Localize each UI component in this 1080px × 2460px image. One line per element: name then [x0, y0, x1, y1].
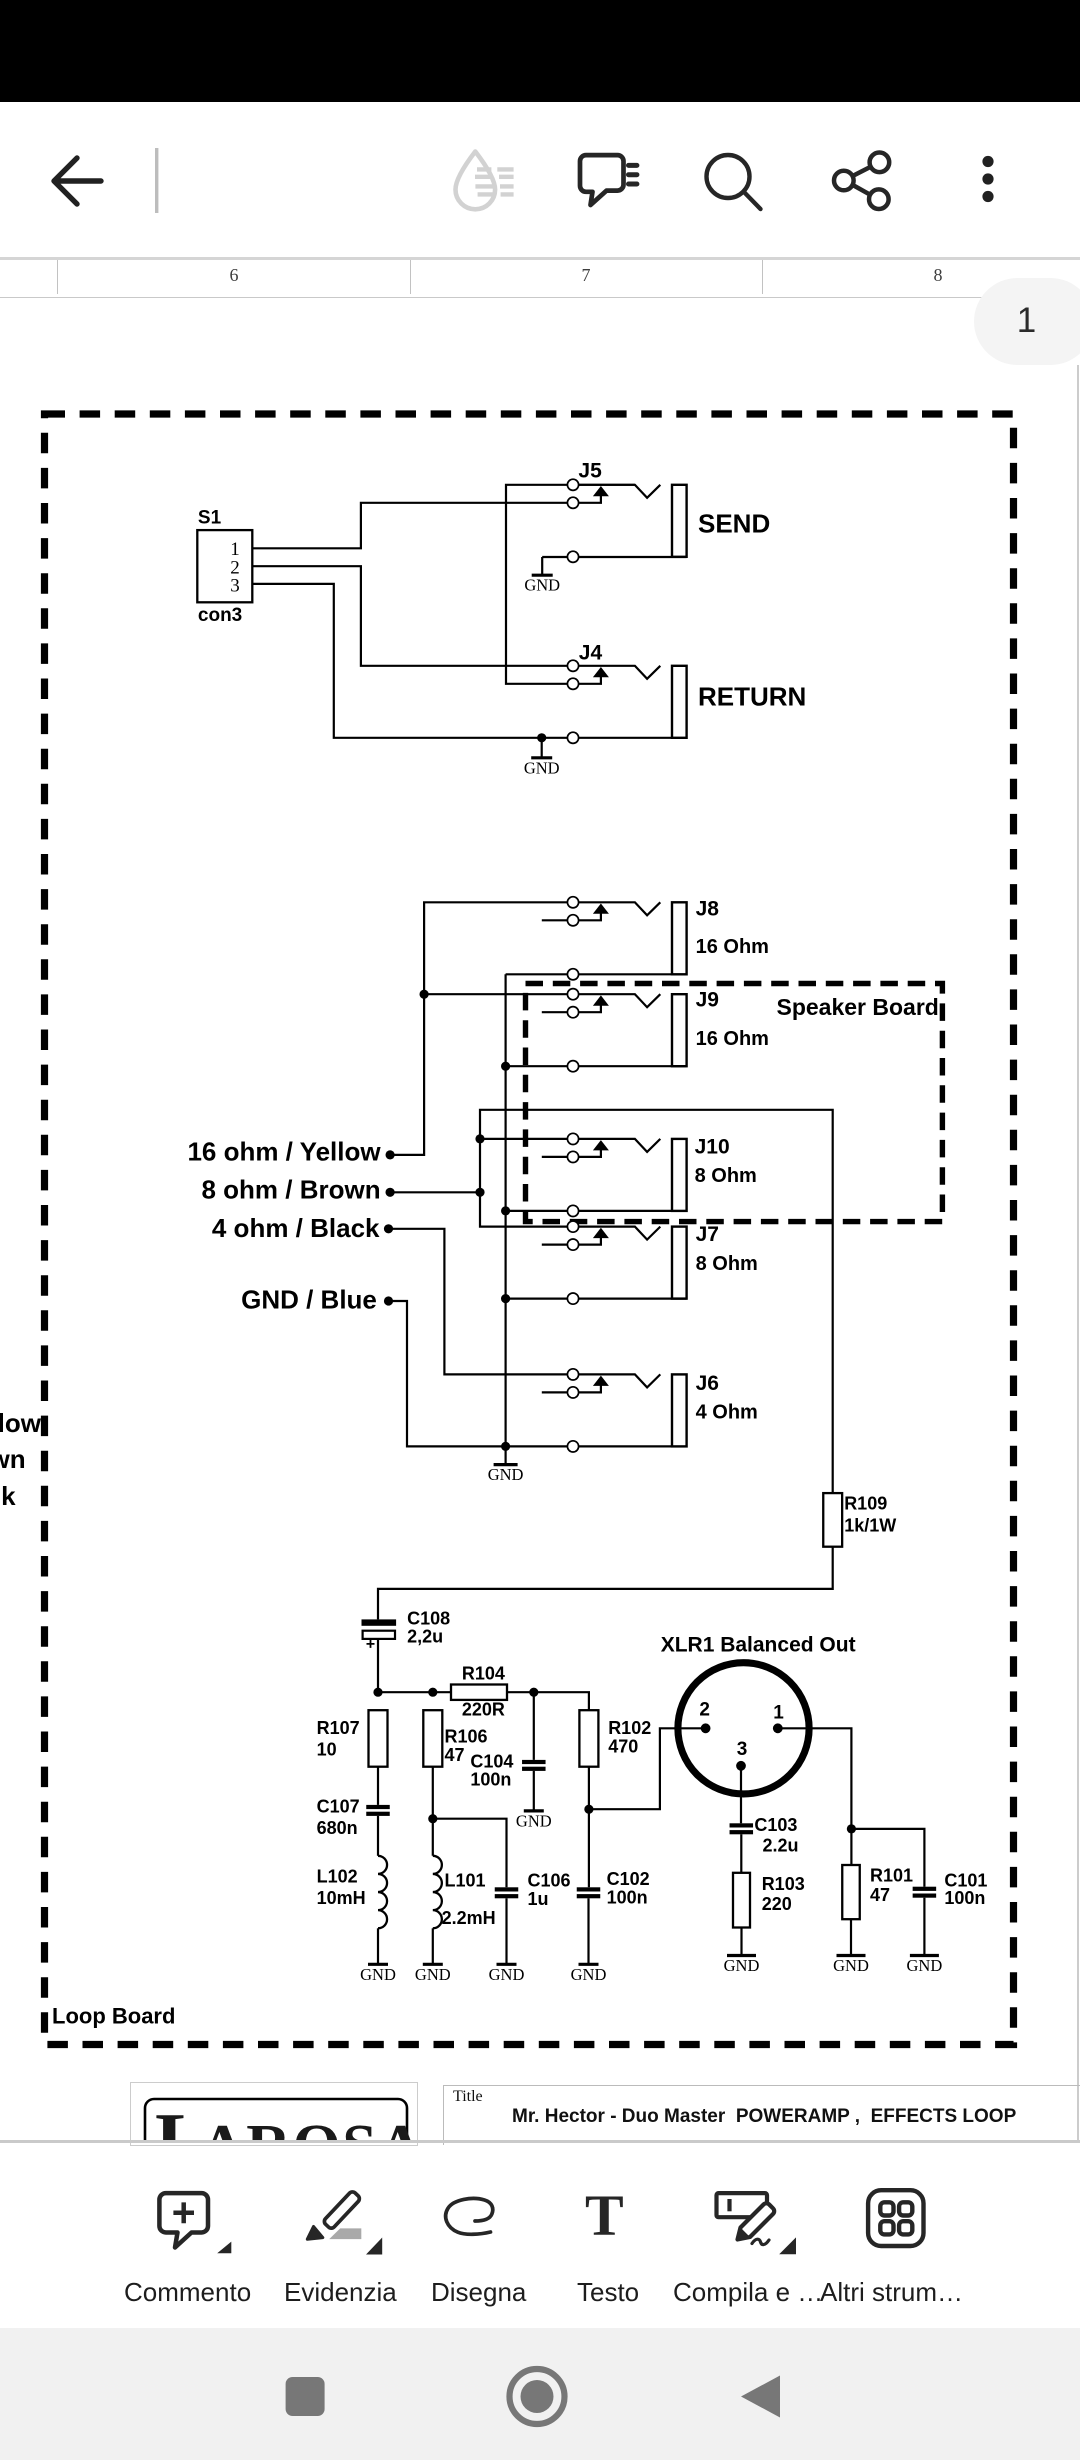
svg-text:GND: GND: [516, 1811, 552, 1830]
ground C101: [907, 1940, 943, 1975]
svg-text:Speaker Board: Speaker Board: [777, 994, 939, 1020]
jack J6: [567, 1369, 686, 1452]
svg-text:L101: L101: [445, 1870, 486, 1890]
svg-text:R109: R109: [844, 1494, 887, 1514]
XLR pin 3: [736, 1761, 746, 1771]
svg-text:con3: con3: [198, 605, 242, 626]
svg-text:47: 47: [870, 1885, 890, 1905]
ground C104: [516, 1795, 552, 1830]
svg-text:J6: J6: [696, 1372, 719, 1395]
junction node R107: [373, 1688, 382, 1697]
junction 4ohm label: [384, 1224, 393, 1233]
wire J9 ring stub: [542, 1011, 573, 1013]
svg-text:8 Ohm: 8 Ohm: [695, 1165, 757, 1187]
svg-text:GND: GND: [724, 1956, 760, 1975]
wire C101 to gnd: [923, 1898, 925, 1940]
jack J5: [567, 479, 686, 562]
altri strumenti icon: [868, 2190, 923, 2246]
junction gnd bus J7: [501, 1294, 510, 1303]
wire J5 sleeve: [542, 556, 686, 558]
evidenzia icon: [323, 2190, 361, 2230]
svg-text:wn: wn: [0, 1444, 26, 1474]
svg-text:3: 3: [737, 1739, 748, 1760]
ground R101: [833, 1940, 869, 1975]
svg-text:J10: J10: [695, 1136, 730, 1159]
svg-text:GND: GND: [833, 1956, 869, 1975]
svg-text:680n: 680n: [317, 1818, 358, 1838]
jack J8: [567, 897, 686, 980]
svg-text:10: 10: [317, 1740, 337, 1760]
wire J9 tip: [424, 993, 573, 995]
wire S1 pin1 to J5 ring: [252, 503, 573, 549]
wire C106 to gnd: [505, 1898, 507, 1945]
junction 8ohm label: [386, 1188, 395, 1197]
junction node C104: [529, 1688, 538, 1697]
ground C102: [571, 1945, 607, 1984]
wire R109 to C108: [378, 1547, 833, 1620]
svg-text:GND: GND: [415, 1965, 451, 1984]
svg-text:16 ohm / Yellow: 16 ohm / Yellow: [187, 1137, 381, 1167]
wire R101 to gnd: [850, 1919, 852, 1940]
svg-text:GND: GND: [571, 1965, 607, 1984]
svg-text:100n: 100n: [944, 1888, 985, 1908]
svg-text:GND: GND: [524, 758, 560, 777]
junction J9 tip branch: [420, 990, 429, 999]
svg-text:Loop Board: Loop Board: [52, 2004, 175, 2029]
connector XLR1: [678, 1663, 809, 1794]
capacitor C102: [577, 1887, 601, 1898]
wire pin3 to C103: [740, 1766, 742, 1824]
svg-text:16 Ohm: 16 Ohm: [696, 936, 769, 958]
nav square: [286, 2377, 325, 2416]
inductor L101: [433, 1856, 442, 1928]
junction gnd bus J6: [501, 1442, 510, 1451]
wire R103 to gnd: [740, 1928, 742, 1941]
wire J9 sleeve: [506, 1065, 687, 1067]
svg-text:C104: C104: [470, 1752, 513, 1772]
comment icon: [580, 155, 637, 205]
nav triangle: [741, 2376, 780, 2418]
svg-text:R103: R103: [762, 1874, 805, 1894]
svg-text:16 Ohm: 16 Ohm: [696, 1028, 769, 1050]
wire S1 pin2 to J4 tip: [252, 566, 573, 666]
wire J10 tip: [480, 1138, 573, 1140]
svg-text:C102: C102: [607, 1869, 650, 1889]
wire junction to C101: [851, 1829, 924, 1887]
wire GND blue to J6 sleeve: [389, 1301, 687, 1446]
svg-text:J9: J9: [696, 989, 719, 1012]
wire C107 to L102: [377, 1816, 379, 1856]
capacitor C101: [913, 1887, 937, 1898]
resistor R102: [579, 1710, 598, 1767]
svg-text:S1: S1: [198, 507, 222, 528]
wire J6 ring stub: [542, 1391, 573, 1393]
svg-text:AROSA: AROSA: [200, 2113, 425, 2143]
wire R102 to junction: [588, 1767, 590, 1810]
svg-text:k: k: [1, 1481, 16, 1511]
wire J8 sleeve: [506, 973, 687, 975]
junction R106 L101 C106: [428, 1814, 437, 1823]
share icon: [834, 153, 889, 210]
schematic page: [0, 294, 1080, 2140]
nav circle: [510, 2369, 565, 2424]
svg-text:2.2u: 2.2u: [763, 1836, 799, 1856]
disegna icon: [446, 2198, 493, 2234]
capacitor C106: [495, 1887, 519, 1898]
wire J5 tip bus to J4 ring: [506, 485, 635, 684]
wire node left: [378, 1691, 451, 1693]
back arrow: [54, 158, 101, 204]
svg-text:GND: GND: [360, 1965, 396, 1984]
bottom toolbar: [0, 2140, 1080, 2143]
title block: [130, 2082, 418, 2146]
wire C102 to gnd: [587, 1898, 589, 1945]
page number bubble: [974, 278, 1080, 365]
status bar: [0, 0, 1080, 102]
junction J4 sleeve gnd: [537, 733, 546, 742]
connector S1: [197, 530, 252, 602]
wire R106 to L101: [432, 1767, 434, 1856]
wire J8 ring stub: [542, 919, 573, 921]
junction R102 C102 pin2: [584, 1805, 593, 1814]
wire speaker ground bus: [505, 974, 507, 1446]
svg-text:GND: GND: [489, 1965, 525, 1984]
wire L102 to gnd: [377, 1928, 379, 1945]
capacitor C108: [362, 1619, 397, 1648]
junction 8ohm bus label: [475, 1188, 484, 1197]
svg-text:4 Ohm: 4 Ohm: [696, 1402, 758, 1424]
capacitor C104: [522, 1760, 546, 1771]
wire junction to C106: [433, 1819, 507, 1888]
search icon: [707, 155, 761, 209]
svg-text:1k/1W: 1k/1W: [844, 1515, 896, 1535]
capacitor C103: [730, 1823, 754, 1834]
wire 16ohm bus to J8/J9 tips: [390, 902, 573, 1155]
svg-text:4 ohm / Black: 4 ohm / Black: [212, 1213, 380, 1243]
junction R101 C101: [847, 1824, 856, 1833]
navigation bar: [0, 2328, 1080, 2460]
resistor R104: [451, 1685, 507, 1700]
wire junction to C102: [588, 1809, 590, 1887]
svg-text:C103: C103: [754, 1815, 797, 1835]
svg-text:R106: R106: [445, 1726, 488, 1746]
junction 8ohm J10 tip: [475, 1134, 484, 1143]
svg-text:1u: 1u: [528, 1889, 549, 1909]
svg-text:GND / Blue: GND / Blue: [241, 1284, 377, 1314]
svg-text:R102: R102: [608, 1718, 651, 1738]
commento icon: [159, 2193, 208, 2247]
wire 4ohm label to J6 tip: [389, 1229, 574, 1375]
junction 16ohm label: [386, 1150, 395, 1159]
ground C106: [489, 1945, 525, 1984]
ground J4: [524, 738, 560, 778]
wire junction to XLR pin2: [589, 1728, 706, 1809]
svg-text:8 ohm / Brown: 8 ohm / Brown: [201, 1175, 380, 1205]
resistor R107: [369, 1710, 388, 1767]
svg-text:GND: GND: [907, 1956, 943, 1975]
wire node to C104: [533, 1692, 535, 1760]
wire S1 pin3 to J4 sleeve: [252, 584, 686, 738]
junction gnd bus J10: [501, 1206, 510, 1215]
wire 8ohm bus R109 to J7 tip: [480, 1110, 833, 1493]
resistor R101: [842, 1865, 860, 1919]
Speaker Board dashed box: [526, 984, 943, 1222]
wire J10 sleeve: [506, 1210, 687, 1212]
ground L101: [415, 1945, 451, 1984]
svg-text:J8: J8: [696, 898, 720, 921]
wire 8ohm label to bus: [390, 1191, 480, 1193]
svg-text:C107: C107: [317, 1796, 360, 1816]
svg-text:1: 1: [773, 1702, 784, 1723]
svg-text:low: low: [0, 1408, 42, 1438]
jack J10: [567, 1133, 686, 1216]
svg-text:100n: 100n: [470, 1770, 511, 1790]
XLR pin 1: [773, 1723, 783, 1733]
svg-text:C108: C108: [407, 1609, 450, 1629]
wire L101 to gnd: [432, 1928, 434, 1945]
svg-text:R107: R107: [317, 1718, 360, 1738]
wire C108 to node: [377, 1639, 379, 1692]
svg-text:8 Ohm: 8 Ohm: [696, 1253, 758, 1275]
ground J5: [524, 557, 560, 595]
junction node R106: [428, 1688, 437, 1697]
wire R107 to C107: [377, 1767, 379, 1805]
svg-text:220: 220: [762, 1894, 792, 1914]
ground R103: [724, 1940, 760, 1975]
svg-text:GND: GND: [488, 1465, 524, 1484]
wire C104 to gnd: [533, 1771, 535, 1795]
svg-text:L102: L102: [317, 1866, 358, 1886]
compila icon: [717, 2193, 775, 2244]
jack J7: [567, 1221, 686, 1304]
svg-text:2,2u: 2,2u: [407, 1627, 443, 1647]
app toolbar: [0, 102, 1080, 257]
XLR pin 2: [701, 1723, 711, 1733]
svg-text:2: 2: [699, 1699, 710, 1720]
capacitor C107: [366, 1805, 390, 1816]
wire node right: [507, 1692, 589, 1710]
svg-text:J5: J5: [578, 460, 602, 483]
jack J9: [567, 989, 686, 1072]
jack J4: [567, 660, 686, 743]
wire J7 sleeve: [506, 1297, 687, 1299]
svg-text:2.2mH: 2.2mH: [442, 1908, 496, 1928]
svg-text:C106: C106: [528, 1870, 571, 1890]
page right edge line: [1077, 365, 1079, 2140]
wire C103 to R103: [740, 1834, 742, 1873]
ground L102: [360, 1945, 396, 1984]
svg-text:J4: J4: [579, 641, 603, 664]
svg-text:220R: 220R: [462, 1700, 505, 1720]
inductor L102: [378, 1856, 387, 1928]
junction gnd bus J9: [501, 1062, 510, 1071]
svg-text:47: 47: [445, 1745, 465, 1765]
svg-text:R104: R104: [462, 1663, 505, 1683]
junction gnd blue label: [384, 1296, 393, 1305]
svg-text:XLR1 Balanced Out: XLR1 Balanced Out: [661, 1634, 856, 1657]
svg-text:T: T: [585, 2183, 624, 2248]
svg-text:SEND: SEND: [698, 509, 770, 539]
svg-text:10mH: 10mH: [317, 1888, 366, 1908]
svg-text:470: 470: [608, 1737, 638, 1757]
resistor R109: [823, 1493, 842, 1547]
resistor R106: [423, 1710, 442, 1767]
Loop Board dashed border: [45, 414, 1014, 2045]
svg-text:3: 3: [230, 576, 240, 597]
overflow menu dots: [982, 156, 993, 202]
svg-text:GND: GND: [524, 576, 560, 595]
wire J7 ring stub: [542, 1243, 573, 1245]
wire J10 ring stub: [542, 1156, 573, 1158]
liquid-mode droplet icon (disabled): [456, 152, 514, 210]
svg-text:100n: 100n: [607, 1887, 648, 1907]
svg-text:J7: J7: [696, 1223, 719, 1246]
wire pin1 to R101: [778, 1728, 852, 1865]
ground speaker bus: [488, 1446, 524, 1484]
svg-text:R101: R101: [870, 1866, 913, 1886]
text cursor bar: [155, 148, 158, 213]
svg-text:RETURN: RETURN: [698, 682, 806, 712]
logo frame: [145, 2099, 407, 2169]
ruler strip: [0, 257, 1080, 298]
resistor R103: [733, 1873, 750, 1928]
